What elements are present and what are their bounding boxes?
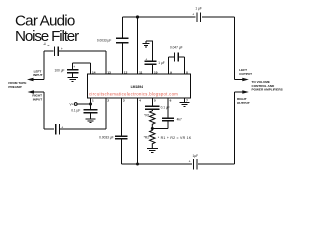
svg-text:LM1894: LM1894 — [131, 85, 144, 89]
svg-text:PREAMP: PREAMP — [8, 85, 21, 89]
svg-text:7: 7 — [186, 98, 188, 102]
svg-text:* R1 + R2 = VR 1K: * R1 + R2 = VR 1K — [158, 136, 192, 140]
svg-text:1µF: 1µF — [193, 154, 199, 158]
svg-text:14: 14 — [92, 70, 96, 74]
svg-text:0.1 µF: 0.1 µF — [71, 109, 80, 113]
svg-text:circuitschematicelectronics.bl: circuitschematicelectronics.blogspot.com — [89, 91, 178, 96]
svg-text:Car Audio: Car Audio — [15, 13, 75, 30]
svg-text:+: + — [192, 13, 194, 17]
svg-text:OUTPUT: OUTPUT — [239, 72, 252, 76]
svg-text:OUTPUT: OUTPUT — [237, 101, 250, 105]
svg-text:4: 4 — [139, 98, 141, 102]
svg-text:1: 1 — [92, 98, 94, 102]
svg-text:+: + — [189, 160, 191, 164]
svg-text:11: 11 — [139, 70, 143, 74]
svg-text:INPUT: INPUT — [33, 97, 42, 101]
svg-text:0.0033 µF: 0.0033 µF — [99, 135, 113, 139]
svg-text:1 µF: 1 µF — [158, 61, 164, 65]
svg-text:Noise Filter: Noise Filter — [15, 28, 79, 45]
svg-text:1 µF: 1 µF — [195, 7, 201, 11]
svg-text:+: + — [145, 57, 147, 61]
svg-text:100 µF: 100 µF — [55, 69, 65, 73]
svg-text:5: 5 — [154, 98, 156, 102]
svg-text:6: 6 — [170, 98, 172, 102]
svg-text:0.047 µF: 0.047 µF — [170, 46, 183, 50]
svg-text:+: + — [61, 47, 63, 51]
svg-text:V+: V+ — [70, 102, 74, 106]
svg-text:INPUT: INPUT — [33, 73, 42, 77]
svg-text:10: 10 — [154, 70, 158, 74]
svg-text:2: 2 — [107, 98, 109, 102]
svg-text:12: 12 — [124, 70, 128, 74]
svg-text:0.0033 µF: 0.0033 µF — [97, 38, 111, 42]
svg-text:3: 3 — [123, 98, 125, 102]
svg-text:9: 9 — [170, 70, 172, 74]
svg-text:*R2: *R2 — [144, 136, 150, 140]
svg-text:13: 13 — [107, 70, 111, 74]
svg-text:8: 8 — [186, 70, 188, 74]
svg-text:*R1: *R1 — [144, 114, 150, 118]
svg-text:POWER AMPLIFIERS: POWER AMPLIFIERS — [252, 88, 283, 92]
svg-text:+: + — [73, 65, 75, 69]
svg-text:0.1 µF: 0.1 µF — [161, 105, 170, 109]
svg-text:+: + — [61, 125, 63, 129]
svg-text:4k7: 4k7 — [177, 118, 182, 122]
